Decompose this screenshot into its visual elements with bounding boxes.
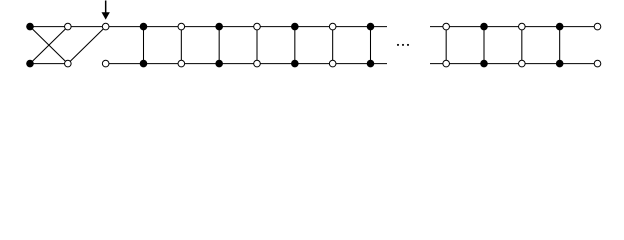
wire rung k8 xyxy=(332,27,334,64)
node top k11 (open) xyxy=(443,23,450,30)
node bottom k9 (filled) xyxy=(367,60,375,68)
wire rung k13 xyxy=(521,27,523,64)
node top k12 (filled) xyxy=(480,23,488,31)
node bottom k6 (open) xyxy=(254,60,261,67)
node bottom k5 (filled) xyxy=(215,60,223,68)
wire bottom rail far-left (k0-k1) xyxy=(30,63,68,65)
arrow marker above top node k2 xyxy=(102,1,110,20)
node bottom k0 (filled) xyxy=(26,60,34,68)
wire rung k3 xyxy=(143,27,145,64)
wire diagonal top-k0 to bottom-k1 xyxy=(30,27,68,64)
node top k6 (open) xyxy=(254,23,261,30)
node bottom k11 (open) xyxy=(443,60,450,67)
node bottom k4 (open) xyxy=(178,60,185,67)
node top k5 (filled) xyxy=(215,23,223,31)
node bottom k3 (filled) xyxy=(140,60,148,68)
wire top rail left (k0-k9 plus stub) xyxy=(30,26,387,28)
node top k13 (open) xyxy=(519,23,526,30)
node top k1 (open) xyxy=(65,23,72,30)
node top k7 (filled) xyxy=(291,23,299,31)
wire rung k6 xyxy=(256,27,258,64)
wire bottom rail right (stub plus k11-k15) xyxy=(430,63,598,65)
wire rung k14 xyxy=(559,27,561,64)
wire rung k11 xyxy=(445,27,447,64)
node bottom k8 (open) xyxy=(329,60,336,67)
node top k2 (open, marked) xyxy=(102,23,109,30)
node bottom k2 (open) xyxy=(102,60,109,67)
node top k8 (open) xyxy=(329,23,336,30)
node bottom k14 (filled) xyxy=(556,60,564,68)
wire rung k7 xyxy=(294,27,296,64)
node top k0 (filled) xyxy=(26,23,34,31)
wire bottom rail left (k2-k9 plus stub) xyxy=(106,63,387,65)
node bottom k13 (open) xyxy=(519,60,526,67)
node bottom k7 (filled) xyxy=(291,60,299,68)
node top k3 (filled) xyxy=(140,23,148,31)
wire rung k5 xyxy=(218,27,220,64)
node top k9 (filled) xyxy=(367,23,375,31)
node bottom k12 (filled) xyxy=(480,60,488,68)
node top k15 (open) xyxy=(594,23,601,30)
wire top rail right (stub plus k11-k15) xyxy=(430,26,598,28)
node top k4 (open) xyxy=(178,23,185,30)
ellipsis dots (continuation) xyxy=(397,44,409,46)
node top k14 (filled) xyxy=(556,23,564,31)
wire rung k4 xyxy=(180,27,182,64)
node bottom k15 (open) xyxy=(594,60,601,67)
wire diagonal bottom-k1 to top-k2 xyxy=(68,27,106,64)
wire rung k9 xyxy=(370,27,372,64)
wire diagonal bottom-k0 to top-k1 xyxy=(30,27,68,64)
node bottom k1 (open) xyxy=(65,60,72,67)
wire rung k12 xyxy=(483,27,485,64)
